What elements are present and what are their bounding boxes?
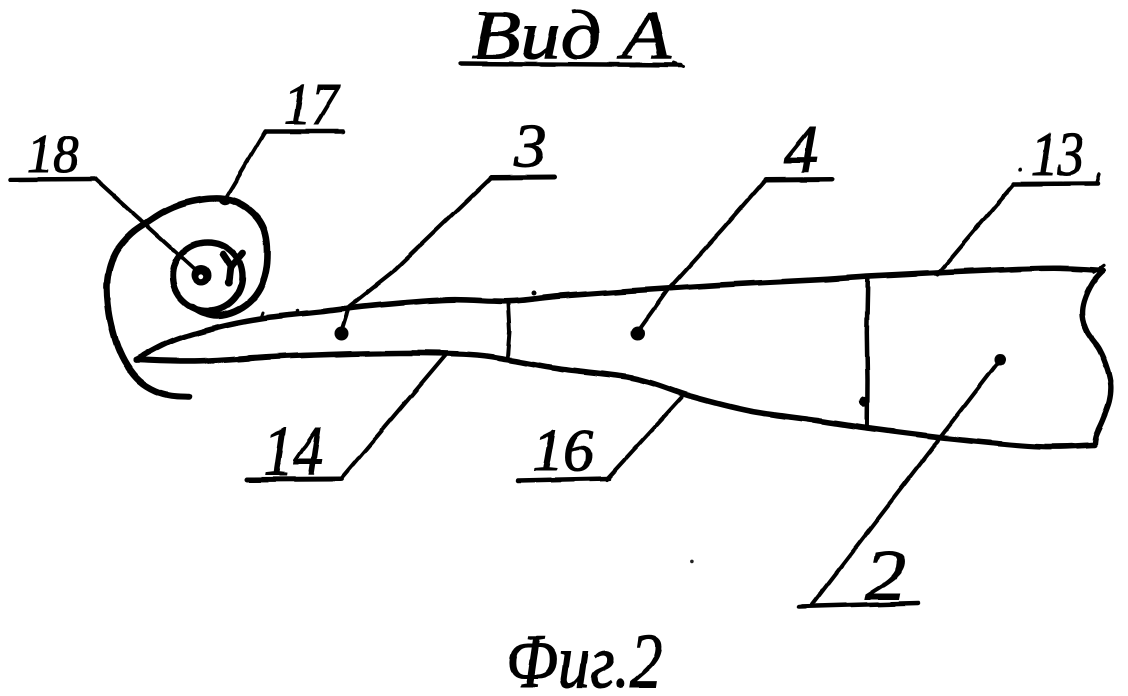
svg-text:17: 17: [284, 72, 341, 137]
svg-text:14: 14: [264, 413, 324, 491]
svg-text:4: 4: [784, 111, 818, 187]
svg-text:13: 13: [1031, 119, 1084, 189]
svg-text:Вид А: Вид А: [471, 0, 671, 74]
svg-text:3: 3: [513, 112, 547, 181]
svg-text:Фиг.2: Фиг.2: [506, 619, 662, 696]
svg-text:2: 2: [865, 535, 907, 616]
svg-text:18: 18: [27, 125, 79, 185]
svg-text:16: 16: [533, 418, 595, 485]
